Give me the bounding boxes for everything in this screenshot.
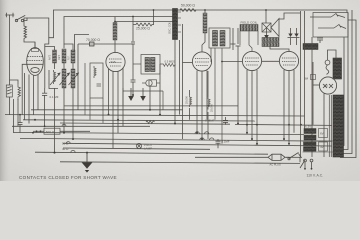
svg-text:110 V. A.C.: 110 V. A.C. — [307, 174, 324, 178]
svg-text:6.3V: 6.3V — [305, 125, 311, 129]
svg-text:R.F.: R.F. — [68, 55, 71, 60]
wire gang link — [49, 70, 58, 89]
bus yE — [12, 125, 150, 127]
RF coil T3 winding top — [71, 50, 75, 63]
tube V2 pin wires — [109, 68, 124, 149]
wire resistor R5 to top bus — [153, 10, 155, 25]
tubular capacitor C3 — [142, 80, 160, 86]
svg-text:FIELD COIL: FIELD COIL — [241, 21, 258, 25]
main bus wires horizontal — [5, 106, 332, 163]
switch S1 wave-change — [15, 16, 27, 22]
transformer left small winding 6.3V — [304, 129, 316, 134]
bus yF — [13, 132, 304, 134]
svg-text:25,000 Ω: 25,000 Ω — [136, 27, 150, 31]
resistor R6 50000 on top bus — [180, 9, 196, 12]
capacitor C8 under switch — [317, 38, 323, 43]
svg-text:DET.: DET. — [58, 54, 61, 60]
ground arrow G2 — [140, 88, 146, 101]
bus yG — [20, 138, 332, 141]
bus yH — [63, 143, 332, 146]
tube V1 6K7 RF (oval) — [27, 48, 44, 76]
svg-text:4V: 4V — [320, 145, 324, 149]
field coil box — [240, 25, 258, 52]
wire top-left corner drop — [45, 10, 54, 88]
small terminal box 6V — [319, 129, 328, 138]
RF coil T2 winding bottom — [62, 69, 66, 88]
IF transformer IFT2 — [209, 28, 230, 144]
electrolytic capacitor C6 — [288, 28, 294, 45]
resistor R1 box left — [6, 85, 12, 97]
tube V6 rectifier 80 — [319, 77, 336, 94]
tube V2 6A8 converter — [106, 52, 125, 71]
tube V1 pin wires — [22, 42, 38, 124]
ground main — [82, 153, 93, 173]
small terminal box 4V — [319, 142, 328, 151]
resistor R2 zigzag left — [18, 84, 21, 100]
tube V4 pin wires — [247, 70, 257, 144]
IF transformer IFT1 — [133, 55, 176, 75]
bus yJ — [35, 152, 268, 154]
transformer left small winding 5V — [304, 142, 317, 146]
svg-text:50,000 Ω: 50,000 Ω — [181, 4, 195, 8]
power plug — [195, 154, 285, 160]
wire osc coil bottom — [175, 24, 183, 139]
svg-text:OSC. COIL: OSC. COIL — [169, 21, 172, 34]
antenna A1 — [6, 13, 15, 85]
coil L4 oscillator plate — [202, 10, 207, 52]
capacitor C2 on grid line — [131, 42, 135, 74]
transformer left small winding 2.5V — [304, 135, 316, 140]
resistor R9 vertical zigzag mid2 — [208, 97, 210, 110]
resistor R10 2ohm — [146, 121, 154, 124]
resistor R7 600 ohm box — [44, 128, 60, 134]
resistor R4 box with 25000 divider — [85, 63, 103, 124]
bus yL bottom line — [60, 162, 300, 164]
RF coil T2 winding top — [62, 49, 66, 63]
power switch S4 lever — [285, 153, 301, 160]
tube V3 6K7 IF — [192, 52, 211, 71]
wire speaker to top — [266, 10, 301, 51]
left page edge shading — [0, 0, 1, 1]
svg-text:25,000: 25,000 — [185, 96, 189, 104]
speaker arrow — [264, 27, 269, 39]
wire switch to tuner — [27, 18, 49, 38]
svg-text:AC PLUG: AC PLUG — [270, 162, 281, 166]
svg-text:0.05MF: 0.05MF — [205, 119, 215, 123]
ground arrow G1 — [128, 88, 134, 101]
pilot lamp — [136, 143, 141, 148]
capacitor C1 0.1mf — [42, 88, 47, 126]
svg-text:600 Ω: 600 Ω — [46, 130, 55, 134]
bus yA0 — [64, 105, 238, 107]
bus yD — [60, 123, 230, 124]
wire grid V4 — [222, 60, 279, 62]
capacitor C5 pair right of IFT2 — [231, 28, 241, 124]
svg-text:5M: 5M — [304, 77, 309, 81]
tube V4 output — [242, 51, 261, 70]
wire 600ohm feed — [33, 130, 44, 132]
resistor R3 70000 ohm line w capacitor — [78, 42, 133, 110]
svg-text:0.1MF: 0.1MF — [222, 140, 230, 144]
wires under RF coils — [49, 35, 89, 153]
bus yB — [5, 115, 305, 116]
wire top bus y=10 — [54, 10, 348, 13]
resistor R5 25000 horizontal — [133, 23, 154, 26]
wire IFT1 right drop — [150, 64, 160, 115]
tube V5 output — [279, 51, 298, 70]
bus yD2 right — [235, 124, 332, 125]
tube V5 pin wires — [284, 70, 294, 144]
capacitor C9 left bottom — [18, 115, 23, 133]
svg-text:25,000: 25,000 — [210, 104, 214, 112]
trimmer arrows on coils — [50, 73, 79, 85]
wires left column — [10, 80, 19, 133]
bus yK power line — [286, 156, 302, 158]
output transformer T4 — [262, 38, 279, 47]
svg-text:70,000 Ω: 70,000 Ω — [86, 38, 100, 42]
switch S2 — [310, 16, 331, 18]
capacitor C4 small — [131, 74, 136, 95]
svg-text:0.1 MF: 0.1 MF — [50, 95, 59, 99]
svg-text:6V: 6V — [320, 132, 324, 136]
speaker cone — [271, 19, 279, 37]
oscillator coil L3 — [173, 9, 182, 40]
grid coil L2 above tube V2 — [113, 17, 117, 53]
svg-text:ANT.: ANT. — [49, 54, 52, 60]
wire third top bus y=21.5 — [115, 21, 173, 23]
rectifier top cap — [325, 50, 336, 74]
choke L5 — [303, 44, 318, 50]
svg-text:50 Ω: 50 Ω — [62, 142, 69, 146]
resistor R8 vertical zigzag mid — [190, 95, 192, 107]
wires right side power rails — [301, 10, 357, 158]
wire AVC enclosure — [123, 88, 163, 110]
paper background — [0, 0, 360, 181]
coil L1 antenna primary — [24, 18, 35, 47]
RF coil T1 secondary bottom — [54, 70, 56, 84]
svg-text:80: 80 — [324, 84, 328, 88]
RF coil T3 winding bottom — [71, 69, 75, 88]
bus yI — [63, 148, 210, 149]
tube V3 pin wires — [183, 62, 208, 139]
transformer core lines — [329, 95, 331, 157]
bus yA — [31, 109, 183, 111]
svg-text:40 Ω: 40 Ω — [62, 147, 69, 151]
mains switch S5 — [300, 159, 313, 170]
capacitor C10 0.05mf — [223, 117, 228, 125]
power transformer secondary winding — [333, 95, 344, 157]
bus yC — [23, 120, 255, 121]
switch S3 — [318, 27, 334, 29]
tube V6 pin wires — [311, 62, 325, 157]
transformer terminal frame — [303, 141, 334, 152]
RF coil T1 secondary top — [53, 49, 76, 88]
electrolytic capacitor C7 — [294, 28, 300, 45]
wire second top bus y=16.5 — [64, 17, 173, 49]
capacitor C11 0.1mf — [216, 139, 221, 148]
tone switch box — [310, 13, 348, 38]
svg-text:CONTACTS CLOSED FOR SHORT WAVE: CONTACTS CLOSED FOR SHORT WAVE — [19, 175, 117, 180]
svg-text:0.5 MEG: 0.5 MEG — [165, 60, 176, 64]
svg-text:LAMP: LAMP — [144, 146, 152, 150]
svg-text:6A8: 6A8 — [111, 60, 116, 64]
wire hops — [62, 124, 214, 152]
transformer left small winding 6V — [304, 147, 317, 151]
speaker voice coil box — [262, 23, 271, 32]
power transformer primary winding — [333, 58, 342, 79]
